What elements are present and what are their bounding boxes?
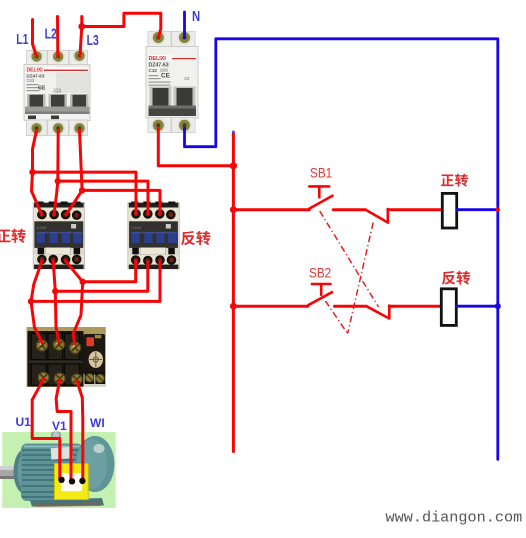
wire node C to KM2 5L3 <box>82 190 160 214</box>
junction node A <box>29 169 35 175</box>
NC interlock contact KM2 (in SB1 branch) <box>366 209 388 223</box>
svg-text:L1: L1 <box>16 31 28 47</box>
wire node C to KM1 5L3 <box>66 190 82 214</box>
svg-text:DELIXI: DELIXI <box>149 56 167 62</box>
wire KM2 interlock to coil KM1 <box>388 208 441 211</box>
junction node B <box>55 178 61 184</box>
wire FR out 3 to motor W1 <box>77 381 83 479</box>
motor lifting eye <box>51 432 61 441</box>
svg-text:L3: L3 <box>87 32 99 48</box>
mechanical link SB1 to KM2 NC (dash-dot) <box>320 211 379 307</box>
contactor KM1 (forward) <box>33 202 85 270</box>
svg-text:CJX2: CJX2 <box>37 225 48 230</box>
motor shaft <box>0 466 19 479</box>
svg-text:SB1: SB1 <box>310 166 332 181</box>
FR auxiliary contact screws 95/96 <box>85 372 106 385</box>
wire node B to KM1 3L2 <box>54 181 58 214</box>
wire KM1 interlock to coil KM2 <box>389 305 440 308</box>
svg-text:CJX2: CJX2 <box>131 225 142 230</box>
wire control bus L (red) <box>232 133 235 452</box>
wire node U to KM2 6T3 <box>31 262 160 301</box>
circuit breaker QF1 (3-pole DELIXI DZ47-63) <box>24 49 90 136</box>
wire KM1 6T3 to node W <box>66 261 83 282</box>
motor rear end cap <box>76 436 115 492</box>
wire node A to KM1 1L1 <box>32 172 42 214</box>
svg-text:CE: CE <box>161 73 171 80</box>
wire KM1 4T2 to node V <box>53 261 55 291</box>
FR dial unit with reset button <box>84 334 106 375</box>
motor nameplate <box>51 447 73 460</box>
motor terminal box <box>55 464 89 500</box>
coil KM1 正转 <box>442 193 456 228</box>
QF2 toggle handles <box>149 87 197 117</box>
wire SB1 to KM2 interlock <box>333 208 365 211</box>
wire N from QF2 to right bus <box>185 39 498 460</box>
wire node U to FR input 1 <box>31 301 42 343</box>
wire FR out 1 to motor U1 <box>32 379 60 478</box>
svg-text:V1: V1 <box>52 419 67 433</box>
junction branch 1 <box>230 206 237 213</box>
junction node V <box>52 288 58 294</box>
mechanical link SB2 to pivot (dash-dot) <box>325 301 347 334</box>
junction node C <box>79 187 85 193</box>
wire L3 branch to QF2 <box>82 13 161 37</box>
wire L3 node to QF1 <box>80 27 82 57</box>
wire node A to KM2 1L1 <box>33 172 137 214</box>
wire QF1 phase C to node C <box>80 130 83 190</box>
coil KM2 反转 <box>441 289 456 326</box>
junction bus feed <box>230 162 237 169</box>
wire L3 supply stub <box>80 17 83 27</box>
wire SB2 to KM1 interlock <box>335 305 367 308</box>
svg-text:SB2: SB2 <box>309 266 331 281</box>
svg-text:333: 333 <box>53 89 62 95</box>
svg-text:33: 33 <box>184 76 190 82</box>
thermal relay FR <box>27 327 106 387</box>
wire QF1 phase B to node B <box>56 130 59 181</box>
wire QF1 phase A to node A <box>33 130 37 172</box>
svg-text:L2: L2 <box>45 26 57 42</box>
wire node V to FR input 2 <box>55 291 59 343</box>
label KM2 反转 (right) <box>181 231 210 245</box>
junction coil KM2 at N bus (blue) <box>495 303 501 309</box>
motor base feet <box>30 498 104 507</box>
wire branch 1 bus to SB1 <box>233 208 309 211</box>
wire coil KM1 to N bus <box>457 208 498 211</box>
wire QF2 out to control bus <box>158 128 233 166</box>
wire node W to FR input 3 <box>73 282 83 344</box>
motor terminal W1 <box>79 478 85 484</box>
KM2 terminals top: 1L1 3L2 5L3 A1 <box>131 209 175 219</box>
motor finned body <box>21 444 83 502</box>
mechanical link KM1 NC to pivot (dash-dot) <box>348 223 374 334</box>
NC interlock contact KM1 (in SB2 branch) <box>366 306 389 319</box>
wire node B to KM2 3L2 <box>58 181 148 214</box>
svg-text:CE: CE <box>38 86 46 92</box>
junction coil KM1 at N bus (red) <box>496 208 500 212</box>
circuit breaker QF2 (2-pole DELIXI DZ47-63 C32, neutral) <box>146 30 198 133</box>
label coil 反转 <box>442 271 470 285</box>
wire node W to KM2 2T1 <box>83 261 136 282</box>
motor terminal V1 <box>69 478 75 484</box>
junction node W <box>80 279 86 285</box>
wire branch 2 bus to SB2 <box>233 305 308 308</box>
label KM1 正转 (left) <box>0 229 26 243</box>
wire N supply stub <box>183 12 186 38</box>
pushbutton SB2 (NC, stop-type contact) <box>308 284 332 305</box>
junction node U <box>28 298 34 304</box>
wire node V to KM2 4T2 <box>55 262 148 291</box>
motor M (3-phase induction motor photo) <box>0 432 116 509</box>
QF1 terminal screws bottom: pins 2 4 6 <box>30 121 87 135</box>
KM1 terminals top: 1L1 3L2 5L3 A1 <box>37 210 81 220</box>
junction L3 <box>78 23 85 30</box>
wire L1 supply stub <box>33 20 37 57</box>
svg-text:www.diangon.com: www.diangon.com <box>386 509 523 527</box>
wire KM1 2T1 to node U <box>31 261 42 301</box>
junction branch 2 <box>230 303 237 310</box>
FR terminal screws top (from KM outputs) <box>36 339 80 353</box>
motor terminal U1 <box>58 477 64 483</box>
svg-text:N: N <box>192 8 200 25</box>
KM1 terminals bottom: 2T1 4T2 6T3 A2 <box>37 255 81 265</box>
label coil 正转 <box>441 174 468 187</box>
wire L2 supply stub <box>56 17 59 57</box>
svg-text:C63: C63 <box>27 78 35 83</box>
wire FR out 2 to motor V1 <box>56 380 71 479</box>
svg-text:U1: U1 <box>16 415 32 429</box>
motor front bell <box>14 449 37 494</box>
FR terminal screws bottom (to motor U1 V1 W1) <box>38 372 82 384</box>
wire coil KM2 to N bus <box>456 305 498 308</box>
svg-text:C32: C32 <box>149 68 158 73</box>
KM2 terminals bottom: 2T1 4T2 6T3 A2 <box>131 255 176 265</box>
QF2 terminal screws: pins 1 3 top, 2 4 bottom <box>151 30 192 133</box>
QF1 toggle handles <box>25 94 90 114</box>
svg-text:WI: WI <box>90 416 105 430</box>
contactor KM2 (reverse) <box>128 202 180 270</box>
pushbutton SB1 (NC, stop-type contact) <box>309 186 332 208</box>
QF1 terminal screws top: pins 1 3 5 <box>30 49 87 64</box>
